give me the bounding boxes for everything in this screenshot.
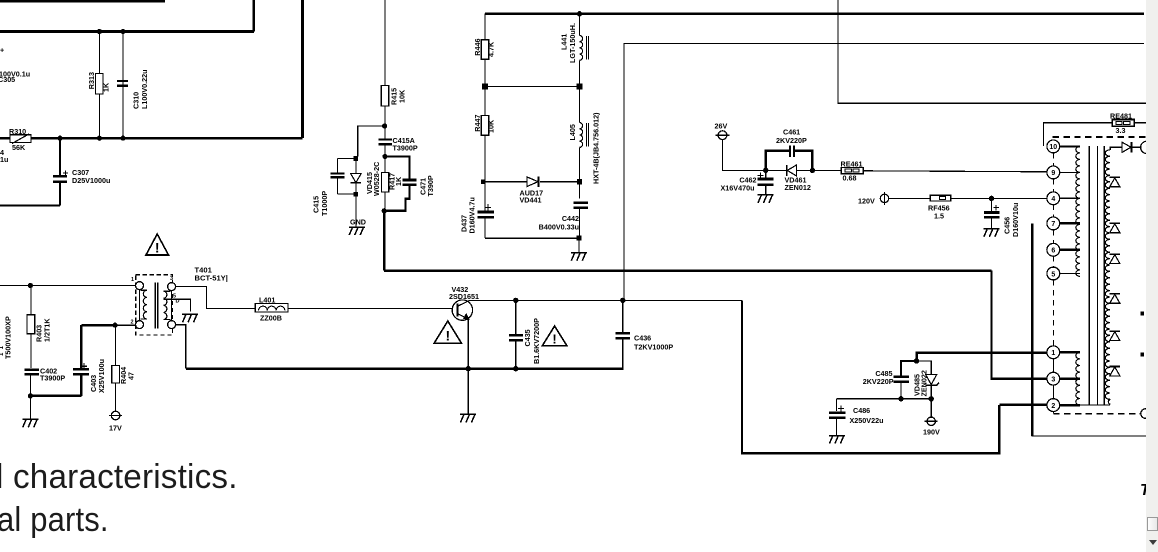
svg-text:D: D bbox=[176, 299, 180, 305]
node junction dots top bus bbox=[57, 29, 125, 141]
svg-text:2: 2 bbox=[131, 320, 134, 326]
svg-text:4.7K: 4.7K bbox=[487, 41, 496, 57]
T401 pin circle bottom-right bbox=[168, 321, 176, 329]
svg-text:R313: R313 bbox=[87, 72, 96, 89]
svg-text:1: 1 bbox=[1051, 350, 1055, 357]
svg-text:10K: 10K bbox=[398, 89, 407, 103]
svg-text:2KV220P: 2KV220P bbox=[776, 136, 807, 145]
svg-text:L401: L401 bbox=[259, 296, 275, 305]
svg-text:R310: R310 bbox=[9, 127, 26, 136]
node dot C436 top bbox=[620, 298, 625, 303]
wire y86.5 cross bbox=[485, 86, 580, 88]
transformer T401 dashed box bbox=[136, 275, 173, 335]
wire RE481 row bbox=[1044, 123, 1147, 146]
pin 3 circle bbox=[1047, 372, 1060, 385]
resistor R446 bbox=[481, 40, 489, 60]
rectifier diode D5 bbox=[1110, 331, 1120, 341]
pin 2 circle bbox=[1047, 399, 1060, 412]
svg-text:17V: 17V bbox=[109, 424, 122, 433]
svg-text:W0528-2C: W0528-2C bbox=[372, 162, 381, 196]
svg-text:C486: C486 bbox=[853, 406, 870, 415]
capacitor C456 electrolytic bbox=[991, 198, 993, 211]
rectifier diode D3 bbox=[1110, 254, 1120, 264]
svg-text:C436: C436 bbox=[634, 334, 651, 343]
diode top horizontal bbox=[1114, 146, 1123, 148]
capacitor C435 bbox=[515, 300, 517, 333]
rectifier diode D1 bbox=[1110, 177, 1120, 187]
svg-text:1K: 1K bbox=[394, 176, 403, 186]
resistor R313 bbox=[96, 74, 104, 95]
node dot y126 bbox=[382, 123, 387, 128]
terminal 17V bbox=[111, 411, 120, 420]
wire node to VD415 branch bbox=[358, 126, 385, 157]
wire node down to bus y270.6 bbox=[383, 211, 385, 271]
svg-text:X16V470u: X16V470u bbox=[721, 184, 755, 193]
node square left bbox=[481, 179, 486, 184]
wire y205.3 to left edge bbox=[0, 204, 60, 206]
svg-text:R447: R447 bbox=[473, 115, 482, 132]
pin2 stub to dashed bbox=[1052, 412, 1054, 414]
svg-text:C305: C305 bbox=[0, 75, 15, 84]
wire C310 branch bbox=[122, 32, 124, 139]
wire corner x624 y43.5 bbox=[624, 44, 1144, 301]
SCHEMATIC bbox=[0, 0, 303, 205]
wire top border segment bbox=[0, 0, 165, 2]
resistor R310 bbox=[10, 135, 31, 143]
capacitor C436 bbox=[622, 300, 624, 331]
svg-text:2: 2 bbox=[1051, 403, 1055, 410]
wire bus y31.5 bbox=[0, 30, 254, 33]
svg-text:T1000P: T1000P bbox=[320, 191, 329, 216]
resistor RF456 fusible bbox=[930, 195, 950, 201]
wire y238.2 bottom bbox=[485, 237, 580, 239]
capacitor C402 bbox=[24, 368, 39, 370]
svg-text:ZZ00B: ZZ00B bbox=[260, 314, 282, 323]
T401 pin circle top-right bbox=[168, 283, 176, 291]
svg-text:!: ! bbox=[155, 240, 160, 256]
capacitor C486 electrolytic bbox=[836, 399, 838, 411]
T401 core bbox=[154, 283, 156, 329]
wire emitter down bbox=[467, 319, 469, 414]
primary winding lower bbox=[1076, 352, 1080, 405]
secondary winding bbox=[1110, 147, 1113, 150]
wire RE461 to pin9 bbox=[863, 171, 1047, 172]
svg-text:2KV220P: 2KV220P bbox=[863, 377, 894, 386]
node dot L441 top bbox=[577, 11, 582, 16]
ground C442 bbox=[571, 253, 587, 261]
diode VD485 zener bbox=[917, 361, 932, 374]
svg-text:3.3: 3.3 bbox=[1116, 126, 1126, 135]
pin tap wires bbox=[1060, 145, 1080, 147]
transistor V432 bbox=[452, 300, 472, 320]
node dot x115 y325.2 bbox=[112, 323, 117, 328]
svg-text:L100V0.22u: L100V0.22u bbox=[140, 69, 149, 109]
node dots y86.5 bbox=[482, 84, 582, 90]
bus y368.7 thick bbox=[186, 367, 624, 370]
svg-text:HXT-4B(JB4.756.012): HXT-4B(JB4.756.012) bbox=[592, 112, 601, 184]
svg-text:10K: 10K bbox=[487, 119, 496, 133]
label fragment right edge 1 bbox=[1141, 312, 1145, 316]
svg-text:4: 4 bbox=[1051, 196, 1055, 203]
node dot x765.7 bbox=[763, 168, 768, 173]
wire vertical x302.5 bbox=[301, 0, 304, 138]
wire stub to ground bbox=[578, 238, 580, 252]
ground C486 bbox=[829, 436, 845, 444]
capacitor C461 branch bbox=[766, 151, 813, 171]
node dot C435 bottom bbox=[513, 366, 518, 371]
node dot C435 top bbox=[513, 298, 518, 303]
wire secondary bottom bbox=[1080, 404, 1110, 406]
svg-text:2SD1651: 2SD1651 bbox=[449, 292, 479, 301]
svg-text:ZEN012: ZEN012 bbox=[785, 183, 811, 192]
wire top bus y13.5 thick bbox=[485, 12, 1144, 15]
pin 5 circle bbox=[1047, 267, 1060, 280]
svg-text:9: 9 bbox=[1051, 170, 1055, 177]
pin 1 circle bbox=[1047, 346, 1060, 359]
wire x742 down loop to pin2 bbox=[742, 300, 999, 453]
svg-text:56K: 56K bbox=[12, 143, 26, 152]
resistor R447 bbox=[481, 116, 489, 136]
svg-text:C435: C435 bbox=[523, 329, 532, 346]
capacitor C415A bbox=[379, 138, 392, 140]
svg-text:+: + bbox=[0, 46, 4, 55]
wire y181.7 diode row bbox=[485, 181, 527, 183]
wire L401 to V432 base bbox=[288, 307, 452, 309]
scrollbar track bbox=[1146, 0, 1158, 552]
wire R403 branch bbox=[30, 286, 32, 315]
svg-text:120V: 120V bbox=[858, 197, 875, 206]
wire VD415 to ground bbox=[355, 196, 357, 227]
pin 7 circle bbox=[1047, 217, 1060, 230]
terminal 190V bbox=[930, 399, 932, 417]
svg-text:190V: 190V bbox=[923, 428, 940, 437]
svg-text:GND: GND bbox=[350, 218, 366, 227]
wire 120V to RF456 bbox=[889, 197, 931, 199]
core lines bbox=[1088, 146, 1090, 405]
bottom caption line 1 bbox=[0, 458, 238, 497]
T401 tap wire pin5 bbox=[163, 299, 190, 311]
resistor R417 bbox=[381, 173, 388, 193]
svg-text:T3900P: T3900P bbox=[40, 374, 65, 383]
wire C402 to gnd node bbox=[29, 374, 31, 419]
resistor R415 bbox=[381, 85, 389, 106]
warning triangle T401 bbox=[146, 234, 169, 255]
svg-text:L405: L405 bbox=[568, 124, 577, 140]
node square VD415 bottom bbox=[354, 192, 359, 197]
svg-text:1: 1 bbox=[131, 277, 134, 283]
node dot x991.5 y198.4 bbox=[989, 196, 994, 201]
svg-text:26V: 26V bbox=[715, 122, 728, 131]
rectifier diode D6 bbox=[1110, 366, 1120, 376]
capacitor C403 electrolytic bbox=[80, 376, 82, 396]
svg-text:1K: 1K bbox=[102, 82, 111, 92]
wire pin2 horizontal bbox=[999, 404, 1047, 406]
wire T401 pin4 down bbox=[176, 325, 186, 369]
svg-text:R446: R446 bbox=[473, 39, 482, 56]
node dots y398.8 bbox=[898, 396, 934, 401]
pin numbers T444 bbox=[1049, 144, 1057, 410]
T401 pin circle top-left bbox=[136, 282, 144, 290]
svg-text:VD441: VD441 bbox=[520, 196, 542, 205]
transformer T444 dashed box bottom bbox=[1053, 413, 1141, 415]
resistor R403 bbox=[27, 315, 35, 334]
ground C402 bbox=[22, 419, 38, 427]
T401 left pin column bbox=[139, 290, 141, 321]
diode VD461 zener bbox=[786, 165, 788, 176]
wire collector y300.4 bbox=[469, 299, 742, 301]
node dot x30.4 bbox=[28, 283, 33, 288]
ground GND VD415 bbox=[349, 227, 365, 235]
terminal 120V bbox=[880, 194, 888, 202]
capacitor C415 bbox=[336, 158, 338, 194]
svg-text:1 1: 1 1 bbox=[0, 345, 5, 356]
svg-text:3: 3 bbox=[1051, 377, 1055, 384]
resistor R404 bbox=[112, 366, 120, 384]
rectifier diode D4 bbox=[1110, 294, 1120, 304]
ground V432 emitter bbox=[460, 414, 476, 422]
svg-text:B1.6KV7200P: B1.6KV7200P bbox=[532, 318, 541, 364]
node dot x812.4 bbox=[810, 168, 815, 173]
wire R446 bottom bbox=[484, 59, 486, 115]
warning triangle right of C435 bbox=[542, 326, 566, 346]
pin circle top right bbox=[1141, 141, 1153, 153]
capacitor C442 bbox=[574, 202, 589, 204]
svg-text:ZEN022: ZEN022 bbox=[920, 370, 929, 396]
wire y395.9 thick bbox=[30, 395, 81, 397]
wire y13.5 corner down to R446 bbox=[484, 14, 486, 40]
wire C485 node to pin1 bbox=[917, 353, 1048, 361]
wire R403 to C402 bbox=[30, 334, 32, 368]
wire y325.2 T401 pin2 bbox=[81, 324, 115, 326]
svg-text:0.68: 0.68 bbox=[843, 174, 857, 183]
capacitor C471 parallel branch bbox=[385, 157, 409, 211]
svg-text:T390P: T390P bbox=[426, 175, 435, 196]
node dot y210.8 bbox=[382, 208, 387, 213]
wire C415 bottom join bbox=[337, 193, 356, 195]
T401 pin circle bottom-left bbox=[136, 321, 144, 329]
svg-text:1u: 1u bbox=[0, 155, 8, 164]
svg-text:10: 10 bbox=[1049, 144, 1057, 151]
resistor RE461 fusible bbox=[841, 168, 863, 174]
wire bus y138.2 bbox=[0, 137, 303, 140]
T401 primary winding bbox=[141, 290, 147, 319]
svg-text:T3900P: T3900P bbox=[393, 144, 418, 153]
wire to C415 top bbox=[337, 157, 356, 159]
node dot y156.5 bbox=[382, 154, 387, 159]
T401 secondary winding bbox=[163, 291, 170, 319]
svg-text:T2KV1000P: T2KV1000P bbox=[634, 343, 673, 352]
label fragment right edge 2 bbox=[1141, 353, 1145, 357]
svg-text:D160V10u: D160V10u bbox=[1011, 203, 1020, 237]
wire L405 bottom bbox=[579, 147, 581, 198]
svg-text:B400V0.33u: B400V0.33u bbox=[539, 223, 579, 232]
ground C462 bbox=[758, 195, 774, 203]
svg-text:47: 47 bbox=[127, 372, 136, 380]
node dot C485 top bbox=[914, 358, 919, 363]
wire R404 to 17V bbox=[115, 383, 117, 411]
svg-text:X250V22u: X250V22u bbox=[850, 416, 884, 425]
svg-text:3: 3 bbox=[170, 276, 173, 282]
svg-text:X25V100u: X25V100u bbox=[97, 359, 106, 393]
svg-text:RE481: RE481 bbox=[1110, 112, 1132, 121]
diode VD415 bbox=[355, 158, 357, 173]
capacitor C307 bbox=[59, 138, 61, 175]
wire R417 bottom to node bbox=[384, 192, 386, 211]
wire pin7 long drop bbox=[1031, 223, 1033, 436]
scrollbar down arrow bbox=[1149, 540, 1157, 545]
capacitor C310 bbox=[117, 80, 128, 82]
wire RF456 to pin4 bbox=[951, 197, 1048, 199]
inductor L401 bbox=[255, 304, 288, 312]
wire y285.5 to T401 pin1 bbox=[0, 285, 136, 287]
capacitor D437 electrolytic bbox=[484, 182, 486, 211]
inductor L441 bbox=[579, 14, 581, 36]
terminal 26V bbox=[718, 131, 727, 140]
svg-text:!: ! bbox=[445, 328, 450, 344]
pin 9 circle bbox=[1047, 166, 1060, 179]
pin circle bottom right bbox=[1141, 409, 1151, 419]
inductor L405 bbox=[580, 123, 583, 148]
svg-text:D160V4.7u: D160V4.7u bbox=[468, 197, 477, 233]
wire L441 bottom bbox=[579, 60, 581, 122]
wire vertical x254 bbox=[253, 0, 256, 32]
svg-text:1/2T1K: 1/2T1K bbox=[43, 318, 52, 342]
svg-text:D25V1000u: D25V1000u bbox=[72, 176, 110, 185]
wire R415 to node bbox=[384, 106, 386, 139]
wire node y398.8 bbox=[837, 398, 933, 400]
svg-text:RE461: RE461 bbox=[841, 160, 863, 169]
svg-text:7: 7 bbox=[1051, 221, 1055, 228]
T401 right pin column bbox=[171, 291, 173, 321]
wire corner x838 y102.5 bbox=[838, 0, 1146, 103]
scrollbar thumb bbox=[1147, 517, 1158, 531]
wire T401 pin3 to L401 bbox=[176, 287, 256, 309]
svg-text:BCT-51Y|: BCT-51Y| bbox=[195, 274, 228, 283]
capacitor C485 branch bbox=[901, 361, 917, 375]
ground T401 tap bbox=[182, 314, 198, 322]
diode VD441 bbox=[527, 177, 538, 187]
wire R415 feed from top bbox=[384, 0, 386, 85]
primary winding upper bbox=[1076, 146, 1080, 276]
bus y270.6 thick bbox=[384, 269, 991, 272]
node dot right y181.7 bbox=[577, 179, 582, 184]
svg-text:5: 5 bbox=[1051, 271, 1055, 278]
pin 10 circle bbox=[1047, 140, 1060, 153]
capacitor C462 electrolytic bbox=[765, 170, 767, 177]
wire R404 branch bbox=[115, 325, 117, 365]
transformer T444 dashed box top bbox=[1053, 136, 1147, 138]
bottom caption line 2 bbox=[0, 501, 109, 540]
resistor RE481 fusible bbox=[1112, 120, 1134, 127]
svg-text:LGT-150uH.: LGT-150uH. bbox=[568, 23, 577, 63]
wire x991.5 from bus to pin3 bbox=[992, 271, 1048, 379]
wire R447 bottom bbox=[484, 135, 486, 207]
node dot x30.4 y395.9 bbox=[28, 393, 33, 398]
node dot emitter bus bbox=[466, 366, 471, 371]
wire C415A to node y156.5 bbox=[384, 144, 386, 172]
warning triangle left of C435 bbox=[434, 321, 461, 343]
svg-text:!: ! bbox=[552, 332, 556, 347]
ground C456 bbox=[984, 229, 1000, 237]
pin column dash line bbox=[1052, 153, 1054, 346]
svg-text:1.5: 1.5 bbox=[934, 212, 944, 221]
node square VD415 top bbox=[354, 156, 359, 161]
pin 4 circle bbox=[1047, 192, 1060, 205]
wire 26V down and right bbox=[723, 140, 766, 171]
pin 6 circle bbox=[1047, 243, 1060, 256]
rectifier diode D2 bbox=[1110, 223, 1120, 233]
svg-text:6: 6 bbox=[1051, 248, 1055, 255]
wire R313 branch bbox=[98, 32, 100, 139]
